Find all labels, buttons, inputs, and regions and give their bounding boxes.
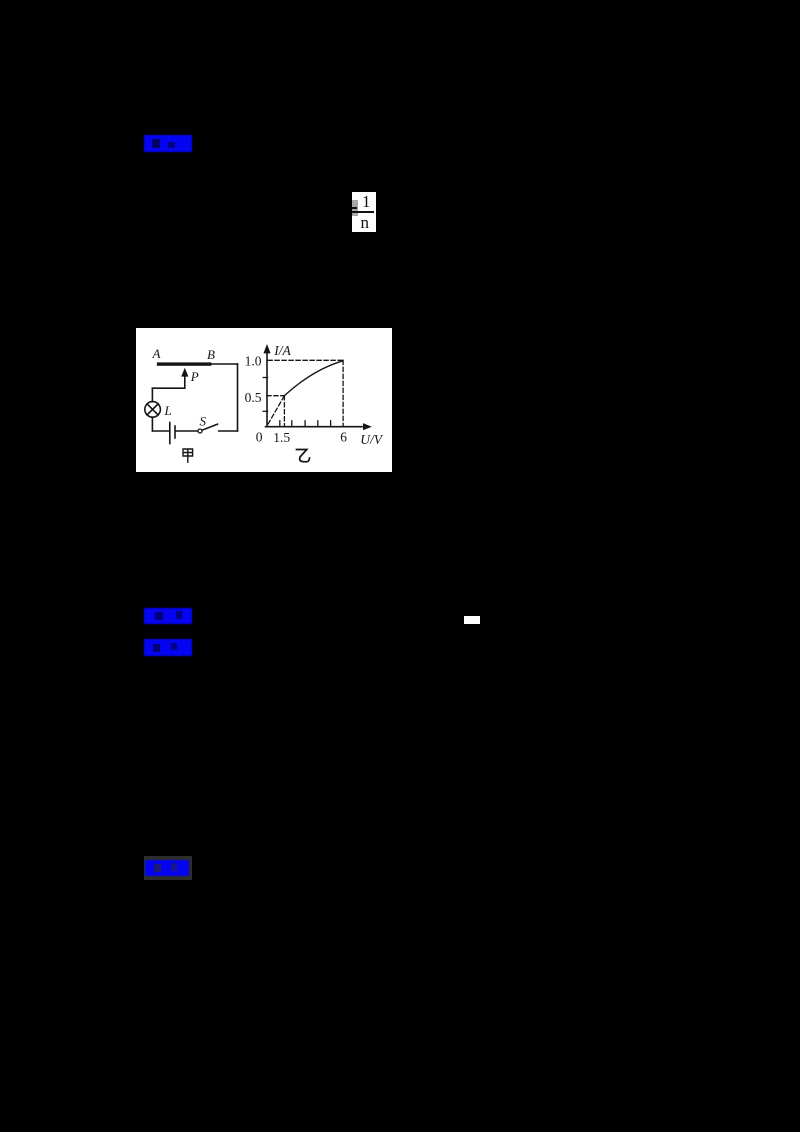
dashed guide at U=6 bbox=[342, 360, 344, 426]
wire switch to right corner bbox=[219, 430, 238, 432]
small white formula image bbox=[464, 616, 480, 624]
svg-text:L: L bbox=[164, 403, 172, 418]
svg-text:1.5: 1.5 bbox=[273, 430, 290, 445]
wire right vertical bbox=[237, 364, 239, 431]
fraction bar bbox=[357, 211, 374, 213]
label 乙 bbox=[297, 450, 310, 462]
blue section tag 【分析】 bbox=[144, 608, 192, 624]
resistor AB (rheostat bar) bbox=[157, 362, 212, 365]
y tick 0.75 bbox=[263, 377, 267, 379]
switch S bbox=[198, 429, 202, 433]
equals sign bbox=[352, 207, 357, 209]
graph y-axis I/A bbox=[266, 353, 268, 427]
wire lamp to bottom bbox=[151, 417, 153, 431]
wire battery to switch bbox=[176, 430, 198, 432]
x tick 5 bbox=[330, 421, 332, 427]
dashed guide at I=0.5 bbox=[267, 395, 285, 397]
I-U curve bbox=[284, 361, 343, 396]
wire bottom left bbox=[152, 430, 169, 432]
x tick 3 bbox=[304, 421, 306, 427]
blue section tag 【考点】 bbox=[144, 135, 192, 152]
numerator 1 bbox=[362, 193, 376, 209]
svg-text:U/V: U/V bbox=[360, 432, 384, 447]
label 甲 bbox=[183, 449, 193, 462]
dashed guide at I=1.0 bbox=[268, 359, 343, 361]
svg-text:0.5: 0.5 bbox=[245, 390, 262, 405]
svg-text:6: 6 bbox=[340, 429, 347, 444]
x tick 2 bbox=[291, 421, 293, 427]
lamp L bbox=[145, 402, 161, 418]
svg-text:P: P bbox=[190, 369, 199, 384]
formula image =1/n bbox=[352, 192, 376, 232]
y tick 0.25 bbox=[263, 410, 267, 412]
slider P arrow bbox=[184, 376, 186, 388]
graph x-axis U/V bbox=[266, 426, 363, 428]
x tick 4 bbox=[317, 421, 319, 427]
svg-text:B: B bbox=[207, 347, 215, 362]
figure image box (circuit 甲 + graph 乙) bbox=[136, 328, 392, 472]
wire left vertical to lamp bbox=[151, 388, 153, 401]
svg-text:I/A: I/A bbox=[273, 343, 291, 358]
svg-text:A: A bbox=[152, 346, 161, 361]
svg-text:1.0: 1.0 bbox=[245, 353, 262, 368]
dashed guide at U=1.5 bbox=[283, 396, 285, 427]
battery cell bbox=[169, 423, 171, 444]
wire bar B end to right corner bbox=[211, 363, 237, 365]
svg-text:S: S bbox=[200, 414, 207, 429]
blue section tag 【点评】 on gray highlight bbox=[144, 856, 192, 880]
gray patch bbox=[352, 200, 358, 216]
svg-text:0: 0 bbox=[256, 429, 263, 444]
denominator n bbox=[361, 214, 375, 230]
wire slider to left bbox=[152, 387, 184, 389]
x tick 1 bbox=[279, 421, 281, 427]
blue section tag 【解答】 bbox=[144, 639, 192, 656]
dashed segment origin to (1.5,0.5) bbox=[268, 396, 284, 424]
